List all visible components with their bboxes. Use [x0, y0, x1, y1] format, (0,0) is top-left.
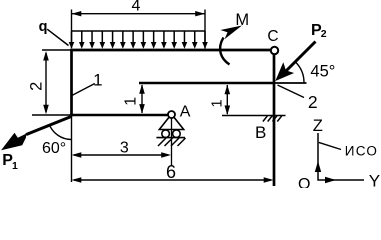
dim 6 arrow left — [72, 177, 82, 182]
support A roller left — [162, 130, 170, 138]
svg-text:1: 1 — [209, 99, 225, 107]
dim 1 mid-left line — [141, 85, 143, 113]
member top beam — [70, 49, 271, 52]
member left column 1 — [70, 49, 73, 117]
angle 60 arc — [49, 125, 71, 140]
support A center line — [171, 118, 173, 166]
moment M arrowhead — [220, 26, 242, 40]
dim 4 extension line right — [204, 10, 206, 49]
force P2 shaft — [283, 42, 316, 75]
dim 1 right arrow down — [225, 106, 231, 116]
dim 6 arrow right — [264, 177, 274, 182]
support A hatching — [158, 138, 186, 146]
hinge circle C — [271, 47, 278, 54]
axis Z line — [317, 133, 319, 181]
svg-text:1: 1 — [93, 70, 102, 89]
leader ISO — [319, 142, 341, 149]
dim 4 line — [72, 13, 206, 15]
dim 1 right arrow up — [225, 85, 231, 95]
svg-text:45°: 45° — [310, 63, 335, 81]
svg-text:2: 2 — [27, 82, 45, 91]
svg-text:q: q — [39, 19, 48, 35]
member bottom horizontal to A — [70, 114, 168, 117]
leader q — [47, 29, 68, 45]
left extension line below P1 point — [71, 116, 73, 182]
svg-text:M: M — [235, 11, 249, 29]
dim 4 extension line left — [71, 10, 73, 49]
moment M arc — [220, 38, 229, 65]
svg-text:3: 3 — [120, 140, 129, 157]
svg-text:2: 2 — [308, 92, 318, 112]
dim 4 arrow left — [72, 11, 82, 16]
dim 6 line — [74, 179, 271, 181]
member right column 2 — [273, 54, 276, 187]
support A roller right — [173, 130, 181, 138]
distributed load q top line — [72, 30, 206, 32]
support A pin circle — [168, 111, 175, 118]
dim 1 right line — [226, 85, 228, 114]
dim 2 left: top extension — [42, 49, 70, 51]
dim 3 arrow left — [72, 152, 82, 157]
member middle horizontal — [139, 82, 275, 85]
svg-text:A: A — [180, 104, 191, 121]
support B hatching — [263, 116, 282, 122]
svg-text:C: C — [267, 28, 278, 45]
axis Z arrowhead — [315, 161, 321, 172]
svg-text:ИСО: ИСО — [345, 143, 378, 158]
dim 2 arrow down — [43, 105, 49, 115]
support A ground line — [156, 137, 185, 139]
support A triangle — [159, 117, 183, 129]
svg-text:6: 6 — [166, 162, 176, 182]
dim 1 mid-left arrow up — [139, 84, 145, 94]
svg-text:2: 2 — [321, 28, 327, 40]
angle 45 arc — [296, 62, 305, 83]
dim 2 arrow up — [43, 51, 49, 61]
dim 2 left: bottom extension — [32, 114, 70, 116]
svg-text:1: 1 — [12, 160, 18, 172]
dim 4 arrow right — [195, 11, 205, 16]
axis Y line — [318, 179, 365, 181]
distributed load arrows — [72, 31, 206, 44]
svg-text:4: 4 — [132, 0, 141, 15]
svg-text:Y: Y — [369, 172, 380, 189]
middle member thin extension right — [275, 82, 307, 84]
support B surface line — [222, 115, 286, 117]
leader label 1 left body — [72, 84, 95, 96]
svg-text:1: 1 — [123, 97, 140, 106]
dim 2 left line — [45, 53, 47, 112]
svg-text:B: B — [255, 123, 266, 142]
svg-text:60°: 60° — [42, 140, 66, 157]
axis Y arrowhead — [325, 177, 336, 183]
leader label 2 right — [278, 85, 305, 98]
svg-text:O: O — [298, 176, 310, 188]
dim 3 arrow right — [161, 152, 171, 157]
dim 3 line — [74, 154, 168, 156]
force P1 shaft — [26, 116, 72, 134]
force P1 arrowhead — [1, 133, 26, 150]
dim 1 mid-left arrow down — [139, 104, 145, 114]
svg-text:Z: Z — [313, 117, 323, 135]
force P2 arrowhead — [275, 62, 294, 81]
